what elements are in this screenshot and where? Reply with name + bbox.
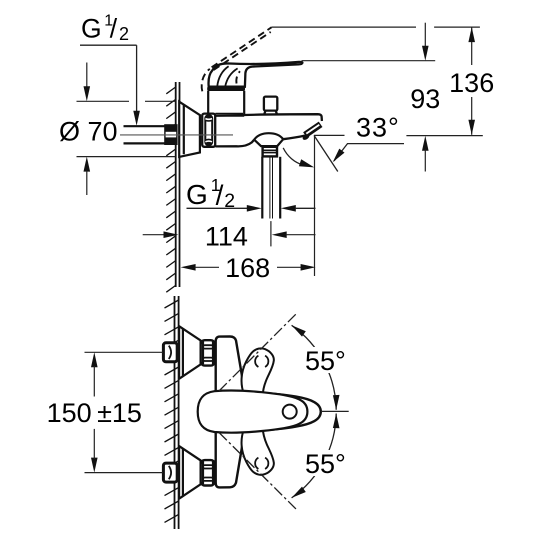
indicator circle on lower ear (broken outline) bbox=[255, 458, 268, 469]
escutcheon (side view) bbox=[179, 102, 200, 157]
dimension 93 bbox=[410, 23, 440, 172]
wall hatching (side view) bbox=[166, 87, 175, 292]
lever (plan view) bbox=[198, 391, 308, 433]
upper housing (cartridge body) bbox=[208, 91, 244, 116]
body (plan view) bbox=[216, 337, 244, 488]
dimension 150 +/- 15 bbox=[47, 352, 163, 472]
svg-text:93: 93 bbox=[410, 84, 440, 114]
55 deg arc lower bbox=[292, 414, 337, 498]
label 55 deg lower bbox=[302, 450, 352, 476]
S-union upper: square nut behind wall bbox=[163, 343, 177, 362]
spout centerline right bbox=[321, 410, 349, 412]
S-union lower: hex nut bbox=[201, 460, 215, 485]
svg-text:Ø 70: Ø 70 bbox=[59, 117, 118, 147]
33 deg arc arrowhead bbox=[299, 159, 314, 167]
svg-text:55°: 55° bbox=[305, 449, 346, 479]
arrowheads for arcs bbox=[292, 325, 306, 336]
svg-text:33°: 33° bbox=[356, 113, 400, 143]
33 deg leader arrowhead bbox=[333, 149, 345, 163]
dimension G 1/2 (top label) bbox=[80, 12, 140, 125]
33 degree angle construction bbox=[283, 135, 404, 171]
shower outlet G1/2 nipple bbox=[263, 147, 277, 157]
lever handle raised (dashed) bbox=[202, 27, 272, 91]
S-union upper: hex nut bbox=[201, 340, 215, 365]
swing arc bbox=[283, 148, 303, 165]
diverter knob on spout bbox=[264, 97, 277, 114]
dimension G 1/2 (shower outlet label) bbox=[186, 175, 316, 212]
wall (side view) bbox=[176, 82, 180, 287]
ear: rotated spout/lever tip upper (55 deg position) bbox=[242, 348, 274, 396]
ear: rotated spout/lever tip lower (55 deg position) bbox=[242, 427, 274, 475]
svg-text:136: 136 bbox=[449, 68, 494, 98]
S-union upper: escutcheon bbox=[179, 326, 201, 379]
centerline of connection bbox=[120, 134, 233, 136]
svg-text:/: / bbox=[216, 179, 224, 210]
spout (plan view) bbox=[234, 392, 321, 432]
S-union lower: escutcheon bbox=[179, 446, 201, 499]
shower outlet pipe bbox=[262, 157, 280, 219]
lever handle (solid, lowered) bbox=[208, 62, 302, 87]
aerator (black angled tip) bbox=[302, 133, 311, 141]
svg-text:2: 2 bbox=[119, 24, 129, 44]
dimension 168 bbox=[181, 136, 316, 283]
wall (plan view) bbox=[175, 296, 179, 529]
S-union lower: square nut behind wall bbox=[163, 463, 177, 482]
extension line: lever top (93) bbox=[302, 60, 436, 62]
label 55 deg upper bbox=[302, 347, 352, 373]
svg-text:55°: 55° bbox=[305, 346, 346, 376]
svg-text:114: 114 bbox=[205, 221, 248, 251]
svg-text:/: / bbox=[110, 14, 118, 44]
top edge bbox=[215, 114, 322, 121]
extension line: center axis right (bottom of 93/136) bbox=[406, 135, 482, 137]
backnut on pipe at wall bbox=[164, 124, 177, 145]
lever interior contour curves bbox=[217, 66, 237, 86]
indicator circle on upper ear (broken outline) bbox=[255, 356, 268, 367]
55 deg arc upper bbox=[292, 325, 337, 409]
leader from label bbox=[334, 144, 404, 161]
dimension 136 bbox=[449, 27, 494, 135]
angled ray at 33 deg from vertical bbox=[314, 135, 338, 171]
shower outlet boss bbox=[254, 133, 283, 146]
svg-text:150 ±15: 150 ±15 bbox=[47, 398, 142, 428]
svg-text:G: G bbox=[186, 179, 208, 210]
bottom edge: barrel bottom, rise to boss, boss, then to tip bbox=[215, 140, 254, 147]
svg-text:168: 168 bbox=[225, 253, 270, 283]
dimension Ø 70 bbox=[59, 63, 176, 196]
swivel axis dash-dot lower bbox=[219, 433, 297, 510]
dimension 114 bbox=[143, 221, 316, 251]
indicator circle on lever bbox=[283, 405, 297, 419]
lever base dark band bbox=[207, 87, 245, 91]
svg-text:G: G bbox=[81, 14, 102, 44]
connection hex nut (side view) bbox=[202, 114, 215, 147]
horizontal ray from spout tip bbox=[314, 134, 345, 136]
extension line: raised lever top (136) bbox=[272, 26, 416, 28]
wall hatching (plan view) bbox=[165, 300, 179, 522]
supply pipe stub behind wall bbox=[124, 126, 165, 143]
swivel axis dash-dot upper bbox=[219, 314, 297, 392]
spout (side view) bbox=[215, 114, 322, 146]
